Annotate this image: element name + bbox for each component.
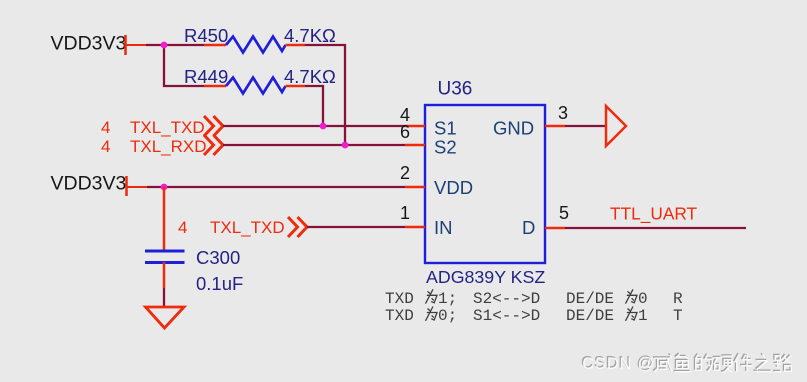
op-amp U36 chip body <box>425 79 545 288</box>
svg-text:4: 4 <box>178 218 187 237</box>
svg-text:4.7KΩ: 4.7KΩ <box>284 66 336 87</box>
resistor R450 body <box>204 37 305 53</box>
port TXL_TXD (lower, to IN) <box>178 217 307 237</box>
svg-text:TTL_UART: TTL_UART <box>610 204 698 224</box>
pin 1 (IN) <box>400 203 425 227</box>
svg-text:0: 0 <box>638 290 648 308</box>
wire junction down to capacitor <box>163 187 166 250</box>
svg-text:R450: R450 <box>184 25 228 46</box>
svg-text:S2<-->D: S2<-->D <box>473 290 540 308</box>
svg-text:DE/DE: DE/DE <box>566 307 614 325</box>
svg-text:T: T <box>673 307 683 325</box>
svg-text:6: 6 <box>400 122 410 142</box>
svg-text:4: 4 <box>101 118 110 137</box>
svg-text:R449: R449 <box>184 66 228 87</box>
svg-text:U36: U36 <box>438 79 473 100</box>
svg-text:ADG839Y KSZ: ADG839Y KSZ <box>426 267 545 287</box>
svg-text:1: 1 <box>400 203 410 223</box>
svg-text:5: 5 <box>559 203 569 223</box>
svg-text:TXD: TXD <box>385 307 414 325</box>
svg-text:0.1uF: 0.1uF <box>196 273 243 294</box>
wire R449 right to vertical drop <box>305 86 323 126</box>
wire VDD3V3 to pin VDD <box>147 186 405 188</box>
note line 2 <box>385 307 683 326</box>
svg-text:1;: 1; <box>438 290 457 308</box>
svg-text:VDD3V3: VDD3V3 <box>51 33 127 55</box>
pin 3 (GND) <box>545 103 568 126</box>
svg-text:4: 4 <box>101 137 110 156</box>
wire capacitor to ground <box>163 262 166 288</box>
svg-text:S1<-->D: S1<-->D <box>473 307 540 325</box>
svg-text:2: 2 <box>400 163 410 183</box>
svg-text:4.7KΩ: 4.7KΩ <box>284 25 336 46</box>
port TXL_TXD (top) <box>101 116 223 137</box>
pin 6 (S2) <box>400 122 425 145</box>
svg-text:3: 3 <box>558 103 568 123</box>
wire junction down and to R449 left <box>164 45 204 86</box>
ground <box>146 307 185 328</box>
svg-text:TXL_TXD: TXL_TXD <box>130 118 205 137</box>
svg-text:C300: C300 <box>196 247 240 268</box>
wire R450 right to vertical drop <box>305 45 345 145</box>
port TXL_RXD <box>101 135 223 156</box>
pin 2 (VDD) <box>400 163 425 187</box>
note line 1 <box>385 289 683 308</box>
capacitor C300 <box>145 247 243 294</box>
wei glyph 4 <box>626 307 638 321</box>
resistor R449 body <box>204 78 305 94</box>
svg-text:S1: S1 <box>434 118 457 139</box>
svg-text:GND: GND <box>493 118 534 139</box>
svg-text:D: D <box>522 217 535 238</box>
junction dot (VDD bottom) <box>161 184 168 191</box>
wire TXL_RXD to pin S2 <box>223 144 405 146</box>
wire D pin to TTL_UART <box>565 227 746 229</box>
pin 5 (D) <box>545 203 569 228</box>
svg-text:TXD: TXD <box>385 290 414 308</box>
junction dot (VDD top) <box>161 42 168 49</box>
wei glyph 3 <box>426 307 438 321</box>
wei glyph 1 <box>426 289 438 303</box>
power port VDD3V3 (top) <box>51 33 147 56</box>
svg-text:VDD: VDD <box>434 177 473 198</box>
wire TXL_TXD to pin IN <box>307 226 405 228</box>
svg-text:DE/DE: DE/DE <box>566 290 614 308</box>
ground port triangle <box>606 106 626 146</box>
junction dot on TXL_TXD <box>320 123 327 130</box>
svg-text:TXL_TXD: TXL_TXD <box>210 218 285 237</box>
svg-text:0;: 0; <box>438 307 457 325</box>
svg-text:R: R <box>673 290 683 308</box>
svg-text:IN: IN <box>434 217 453 238</box>
junction dot on TXL_RXD <box>342 142 349 149</box>
pin 4 (S1) <box>400 105 425 126</box>
svg-text:TXL_RXD: TXL_RXD <box>130 137 207 156</box>
wire junction to R450 left <box>164 44 204 46</box>
svg-text:1: 1 <box>638 307 648 325</box>
wei glyph 2 <box>626 289 638 303</box>
wire TXL_TXD to pin S1 <box>223 125 405 127</box>
wire GND pin to port <box>565 125 606 127</box>
svg-text:S2: S2 <box>434 137 457 158</box>
wire VDD3V3 to junction <box>146 44 164 46</box>
svg-text:VDD3V3: VDD3V3 <box>51 173 127 195</box>
power port VDD3V3 (bottom) <box>51 173 148 197</box>
